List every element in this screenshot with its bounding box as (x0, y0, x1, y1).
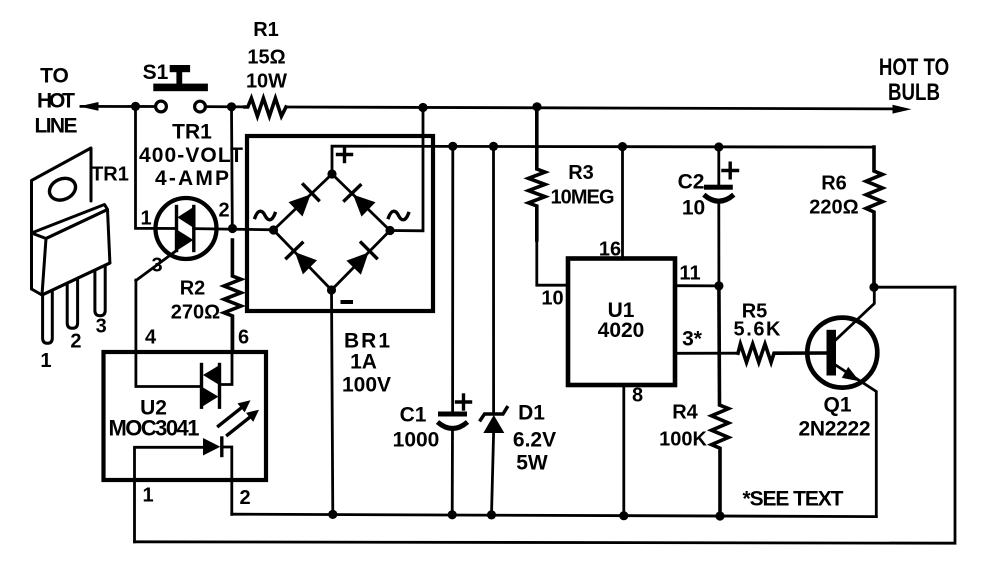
label D1 6.2V 5W (513, 402, 556, 475)
svg-text:8: 8 (632, 385, 643, 407)
svg-text:BR1: BR1 (344, 330, 390, 353)
svg-text:TO: TO (40, 65, 69, 88)
svg-text:11: 11 (679, 263, 700, 285)
wire: R3 down to U1 pin 10 (537, 238, 568, 285)
capacitor C1 (438, 146, 468, 515)
wire: U1 pin 3 to R5 (675, 352, 738, 355)
TR1 package leg 3 (95, 265, 105, 316)
switch S1 (153, 65, 208, 112)
TR1 package tab hole (46, 174, 79, 204)
capacitor C2 (704, 147, 734, 286)
node dot: mid bus at D1 (487, 510, 496, 519)
node dot: mid bus at R4 (715, 511, 724, 520)
svg-text:100K: 100K (659, 429, 707, 451)
node dot: plus rail at D1 (489, 142, 498, 151)
LED emission arrow 2 (228, 410, 260, 435)
svg-text:R4: R4 (672, 402, 698, 424)
svg-text:2N2222: 2N2222 (799, 418, 871, 441)
svg-text:3*: 3* (682, 328, 703, 351)
IC U1 box (568, 259, 675, 386)
svg-text:HOT: HOT (37, 90, 75, 113)
triac TR1 (136, 198, 217, 281)
tilde AC mark left (255, 211, 275, 220)
label U2 MOC3041 (109, 397, 200, 441)
bridge diode bottom-right (346, 243, 376, 275)
triac inside U2 (201, 365, 220, 408)
svg-text:1: 1 (40, 350, 51, 372)
label TR1 400-VOLT 4-AMP (139, 121, 243, 191)
node dot: mid bus at C1 (448, 510, 457, 519)
svg-text:HOT TO: HOT TO (879, 54, 949, 81)
label R3 10MEG (551, 162, 615, 209)
resistor R3 (529, 107, 546, 240)
svg-text:*SEE TEXT: *SEE TEXT (743, 488, 844, 511)
label U1 4020 (598, 299, 645, 342)
svg-text:2: 2 (70, 331, 81, 353)
node dot: plus rail at C2 (714, 142, 723, 151)
wire: bridge plus output up and right to R6 corner (332, 146, 874, 174)
svg-text:10W: 10W (246, 71, 287, 93)
wire: TR1 terminal 2 to bridge left AC vertex (194, 229, 274, 230)
svg-text:10: 10 (541, 288, 563, 310)
wire: vertical from hot line down to TR1 terminal 2 node (230, 107, 234, 229)
node dot: bridge left vertex (269, 225, 278, 234)
svg-text:3: 3 (151, 255, 162, 277)
svg-text:BULB: BULB (888, 79, 940, 106)
svg-text:5.6K: 5.6K (734, 319, 782, 341)
label R6 220ohm (809, 173, 858, 219)
svg-text:1: 1 (142, 485, 153, 507)
label R4 100K (659, 402, 707, 451)
label C1 1000 (393, 404, 440, 452)
TR1 package bottom edge over legs (42, 263, 110, 295)
wire: top hot line left segment with arrow to TO HOT LINE (79, 102, 156, 111)
wire: U2 pin 2 from LED down to mid bus (222, 447, 232, 514)
svg-text:4-AMP: 4-AMP (155, 167, 229, 190)
svg-text:Q1: Q1 (823, 394, 851, 417)
LED inside U2 (203, 438, 222, 456)
svg-text:4: 4 (145, 327, 157, 349)
svg-text:C2: C2 (678, 171, 705, 194)
TR1 package leg 1 (43, 290, 53, 343)
svg-text:3: 3 (96, 316, 107, 338)
svg-text:2: 2 (218, 200, 229, 222)
svg-text:D1: D1 (518, 402, 545, 425)
node dot: R6 bottom collector node (869, 283, 878, 292)
node dot: hot line branch to bridge AC (418, 103, 427, 112)
wire: U1 pin 16 up to plus rail (621, 147, 624, 259)
svg-text:2: 2 (239, 487, 250, 509)
svg-text:100V: 100V (342, 374, 391, 397)
label R1 15ohm 10W (246, 19, 287, 93)
node dot: bridge right vertex (385, 226, 394, 235)
svg-text:5W: 5W (516, 452, 548, 475)
svg-text:1000: 1000 (393, 429, 440, 452)
svg-text:1A: 1A (350, 351, 377, 374)
resistor R6 (866, 147, 883, 287)
bridge diamond wires (274, 174, 391, 290)
svg-text:S1: S1 (143, 61, 169, 84)
label R5 5.6K (734, 301, 782, 341)
wire: U1 pin 8 down to mid bus (622, 385, 625, 516)
bridge diode top-left (289, 185, 319, 217)
TR1 package body front face (42, 210, 110, 296)
svg-text:R6: R6 (821, 173, 847, 195)
svg-text:R2: R2 (180, 278, 206, 300)
wire: mid bus (zero volt rail) (232, 514, 877, 516)
wire: bridge minus output down to bottom bus (332, 290, 333, 514)
bridge diode bottom-left (287, 243, 318, 275)
node dot: TR1 terminal 2 (228, 224, 237, 233)
svg-text:15Ω: 15Ω (247, 47, 285, 69)
TR1 package tab (32, 148, 92, 295)
svg-text:MOC3041: MOC3041 (109, 416, 200, 441)
plus label at C1 (457, 395, 471, 409)
svg-text:16: 16 (599, 239, 621, 261)
node dot: hot line branch to arrow (131, 102, 140, 111)
node dot: plus rail at U1 pin 16 (618, 142, 627, 151)
svg-text:10: 10 (682, 197, 705, 220)
svg-text:6.2V: 6.2V (513, 429, 556, 452)
node dot: plus rail at C1 (448, 142, 457, 151)
label C2 10 (678, 171, 706, 220)
wire: collector node right and down outer loop (874, 286, 955, 289)
resistor R5 (738, 344, 827, 362)
resistor R4 (712, 284, 729, 516)
node dot: bridge top vertex (327, 169, 336, 178)
wire: U2 pin 1 internal and down to bottom bus (135, 447, 204, 542)
resistor R2 (224, 240, 241, 352)
svg-text:220Ω: 220Ω (809, 197, 858, 219)
node dot: C2 bottom at U1 pin 11 (714, 281, 723, 290)
minus label at bridge (341, 300, 354, 304)
bridge diode top-right (345, 185, 376, 216)
LED emission arrow 1 (219, 400, 251, 426)
wire: vertical from hot line to TR1 terminal 1 (136, 106, 177, 228)
svg-text:270Ω: 270Ω (171, 302, 220, 324)
bridge rectifier BR1 outer box (247, 136, 433, 311)
svg-text:TR1: TR1 (172, 121, 212, 144)
svg-text:TR1: TR1 (91, 164, 129, 186)
TR1 package body top face (32, 205, 108, 239)
wire: U2 pin 6 internal connection (221, 316, 233, 385)
svg-text:400-VOLT: 400-VOLT (139, 144, 243, 167)
zener diode D1 (481, 146, 508, 515)
plus label at bridge (338, 148, 352, 162)
wire: TR1 gate down to U2 pin 4 (136, 280, 201, 387)
optocoupler U2 box (104, 352, 267, 480)
svg-text:R1: R1 (253, 19, 279, 41)
svg-text:10MEG: 10MEG (551, 187, 615, 209)
svg-text:LINE: LINE (35, 115, 78, 138)
label HOT TO BULB (879, 54, 949, 106)
svg-text:R3: R3 (568, 162, 594, 184)
label R2 270ohm (171, 278, 220, 324)
node dot: mid bus at U1 pin 8 (619, 511, 628, 520)
node dot: mid bus at bridge minus (328, 510, 337, 519)
node dot: hot line branch to TR1 (227, 102, 236, 111)
svg-text:C1: C1 (400, 404, 427, 427)
svg-text:1: 1 (140, 208, 151, 230)
svg-text:4020: 4020 (598, 319, 645, 342)
label TO HOT LINE (35, 65, 78, 138)
resistor R1 (245, 98, 286, 116)
wire: top hot line right segment to bulb arrow (205, 105, 911, 114)
svg-text:6: 6 (238, 327, 249, 349)
transistor Q1 (807, 287, 877, 516)
label BR1 1A 100V (342, 330, 391, 397)
node dot: hot line branch to R3 (532, 102, 541, 111)
tilde AC mark right (389, 211, 409, 220)
wire: U1 pin 11 to C2 node (675, 284, 719, 287)
plus label at C2 (723, 163, 738, 178)
node dot: bridge bottom vertex (327, 285, 336, 294)
TR1 package leg 2 (67, 278, 77, 328)
label Q1 2N2222 (799, 394, 871, 441)
wire: bottom outer bus (135, 287, 956, 543)
wire: bridge right AC vertex up to hot line (390, 108, 423, 231)
